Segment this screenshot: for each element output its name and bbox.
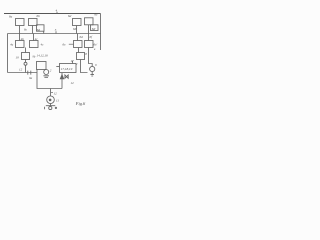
svg-text:a: a xyxy=(94,48,96,51)
svg-text:6c: 6c xyxy=(24,28,28,32)
block 6e R3 xyxy=(74,41,83,48)
svg-text:12: 12 xyxy=(71,81,75,85)
svg-text:9b: 9b xyxy=(33,56,36,59)
block 17,18 B1 xyxy=(60,64,77,73)
svg-text:9a: 9a xyxy=(29,76,33,80)
block 6d' Rsmall xyxy=(91,25,99,31)
wire S1 C2 bottoms xyxy=(81,60,95,77)
svg-text:17,18,19: 17,18,19 xyxy=(61,67,73,72)
wire L1 to bus xyxy=(19,26,21,34)
svg-text:6f: 6f xyxy=(90,35,94,39)
svg-text:12: 12 xyxy=(54,92,58,96)
svg-text:4b: 4b xyxy=(21,37,25,41)
wire R2 to bus xyxy=(88,25,90,34)
svg-text:4a: 4a xyxy=(10,43,14,47)
block 6e' R4 xyxy=(85,41,94,48)
svg-text:11: 11 xyxy=(56,99,59,103)
wire valve riser xyxy=(61,73,63,89)
block 8 S1 xyxy=(77,53,85,60)
wire R3 to S1 xyxy=(78,48,80,53)
svg-text:6e': 6e' xyxy=(94,43,98,47)
wire bus to R4 xyxy=(88,34,90,41)
sensor circle under M xyxy=(44,70,49,75)
block 6a L1 xyxy=(16,19,25,26)
svg-text:14,12,16: 14,12,16 xyxy=(37,54,49,59)
valve symbol xyxy=(65,75,68,78)
svg-text:6a: 6a xyxy=(9,15,13,19)
motor circle 10 xyxy=(47,96,55,104)
valve arrowhead xyxy=(60,75,63,79)
wire to motor xyxy=(37,70,62,89)
svg-text:12: 12 xyxy=(19,68,23,72)
wire bus to R3 xyxy=(77,34,79,41)
wire left bottom xyxy=(8,72,25,74)
ground hatch under sensor xyxy=(43,76,49,78)
wire left border xyxy=(7,34,9,73)
block 6a' R1 xyxy=(73,19,82,26)
wire R1 to bus xyxy=(76,26,78,34)
ground xyxy=(45,106,56,110)
svg-text:6b: 6b xyxy=(37,14,41,18)
svg-text:2: 2 xyxy=(50,69,52,73)
block 14 M xyxy=(37,62,47,70)
block 6c' R2 xyxy=(85,18,94,25)
block 19 K xyxy=(22,53,30,60)
motor inner xyxy=(49,99,51,101)
wire R4 to C2 xyxy=(89,48,93,67)
wire bus to L3 xyxy=(19,34,21,41)
block 4a L3 xyxy=(16,41,25,48)
wire bus to L4 xyxy=(33,34,35,41)
svg-text:2: 2 xyxy=(76,63,78,66)
block 4c L4 xyxy=(30,41,39,48)
svg-text:4c: 4c xyxy=(41,43,45,47)
wire L3 to K xyxy=(25,48,27,53)
svg-text:6b': 6b' xyxy=(73,27,77,31)
svg-text:6a': 6a' xyxy=(68,14,72,18)
svg-text:17: 17 xyxy=(71,59,75,63)
block 6d Lsmall xyxy=(37,25,45,31)
circle 9 C2 xyxy=(90,66,95,71)
svg-text:Fig.6: Fig.6 xyxy=(75,101,86,106)
svg-text:6d: 6d xyxy=(37,28,41,32)
svg-text:19: 19 xyxy=(16,56,20,60)
wire L2 to bus xyxy=(32,26,34,34)
wire motor to ground xyxy=(50,104,52,106)
wire motor tap xyxy=(50,89,52,97)
svg-text:8: 8 xyxy=(85,52,87,56)
wire K down xyxy=(24,60,37,75)
pump circle small xyxy=(24,62,27,65)
svg-text:9: 9 xyxy=(95,63,97,67)
svg-text:6e: 6e xyxy=(63,43,67,47)
wire main bus 5 xyxy=(8,33,101,35)
wire right border xyxy=(100,14,102,51)
svg-text:6d: 6d xyxy=(80,35,84,39)
svg-text:6d': 6d' xyxy=(92,27,96,31)
wire top bus xyxy=(4,13,101,15)
block 6b L2 xyxy=(29,19,38,26)
